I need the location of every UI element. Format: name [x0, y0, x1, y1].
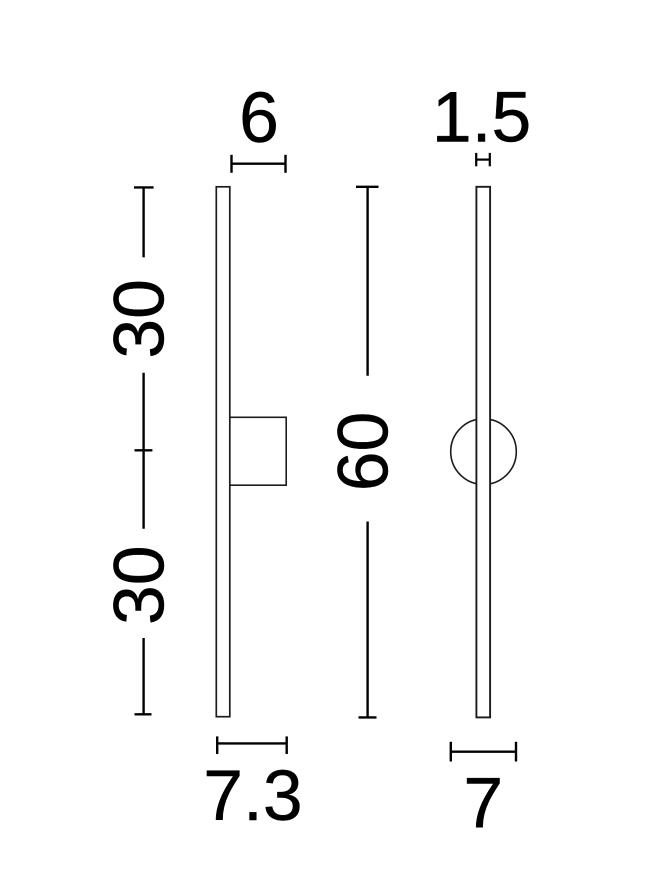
svg-text:1.5: 1.5	[432, 78, 531, 158]
svg-text:6: 6	[239, 78, 279, 158]
svg-text:30: 30	[100, 279, 180, 359]
svg-text:7: 7	[463, 764, 503, 844]
svg-text:7.3: 7.3	[203, 756, 302, 836]
svg-text:30: 30	[100, 545, 180, 625]
svg-text:60: 60	[323, 412, 403, 492]
